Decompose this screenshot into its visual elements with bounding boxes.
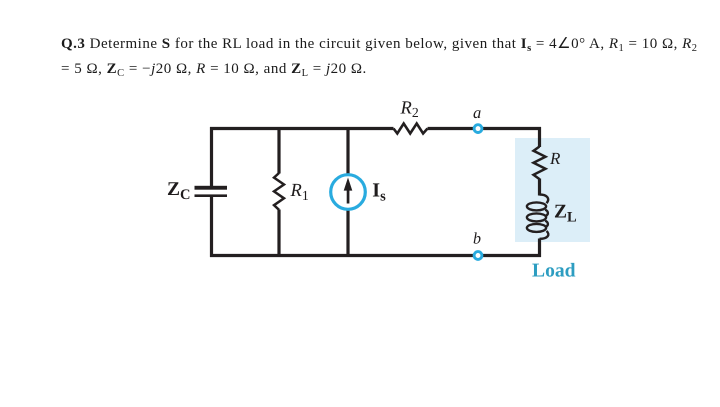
wire: right vertical above R: [538, 127, 541, 147]
current source arrow: [344, 178, 353, 204]
wire: Is branch bottom: [346, 209, 349, 257]
wire: left vertical below capacitor: [210, 196, 213, 257]
capacitor ZC bottom plate: [195, 194, 228, 197]
svg-text:Is: Is: [372, 180, 386, 205]
wire: R1 branch bottom: [277, 210, 280, 258]
wire: top right segment to corner: [428, 127, 542, 130]
resistor R: [534, 147, 546, 180]
wire: between R and ZL: [538, 179, 541, 196]
current source Is circle: [331, 175, 366, 210]
resistor R2: [394, 124, 428, 134]
wire: R1 branch top: [277, 127, 280, 174]
node a: [474, 125, 482, 133]
svg-text:R2: R2: [400, 99, 419, 121]
wire: Is branch top: [346, 127, 349, 175]
wire: bottom: [210, 254, 541, 257]
wire: top left segment: [210, 127, 394, 130]
svg-text:Load: Load: [532, 261, 576, 282]
load shaded box: [515, 138, 590, 242]
capacitor ZC top plate: [195, 186, 228, 190]
svg-text:ZC: ZC: [167, 179, 191, 203]
inductor ZL coil: [527, 195, 548, 239]
problem statement text: [61, 33, 720, 82]
wire: below coil to bottom corner: [538, 239, 541, 258]
svg-text:b: b: [473, 231, 481, 248]
resistor R1: [274, 173, 284, 210]
svg-text:a: a: [473, 103, 481, 122]
wire: left vertical above capacitor: [210, 127, 213, 186]
svg-text:R1: R1: [290, 181, 309, 203]
svg-text:R: R: [549, 149, 561, 168]
node b: [474, 252, 482, 260]
